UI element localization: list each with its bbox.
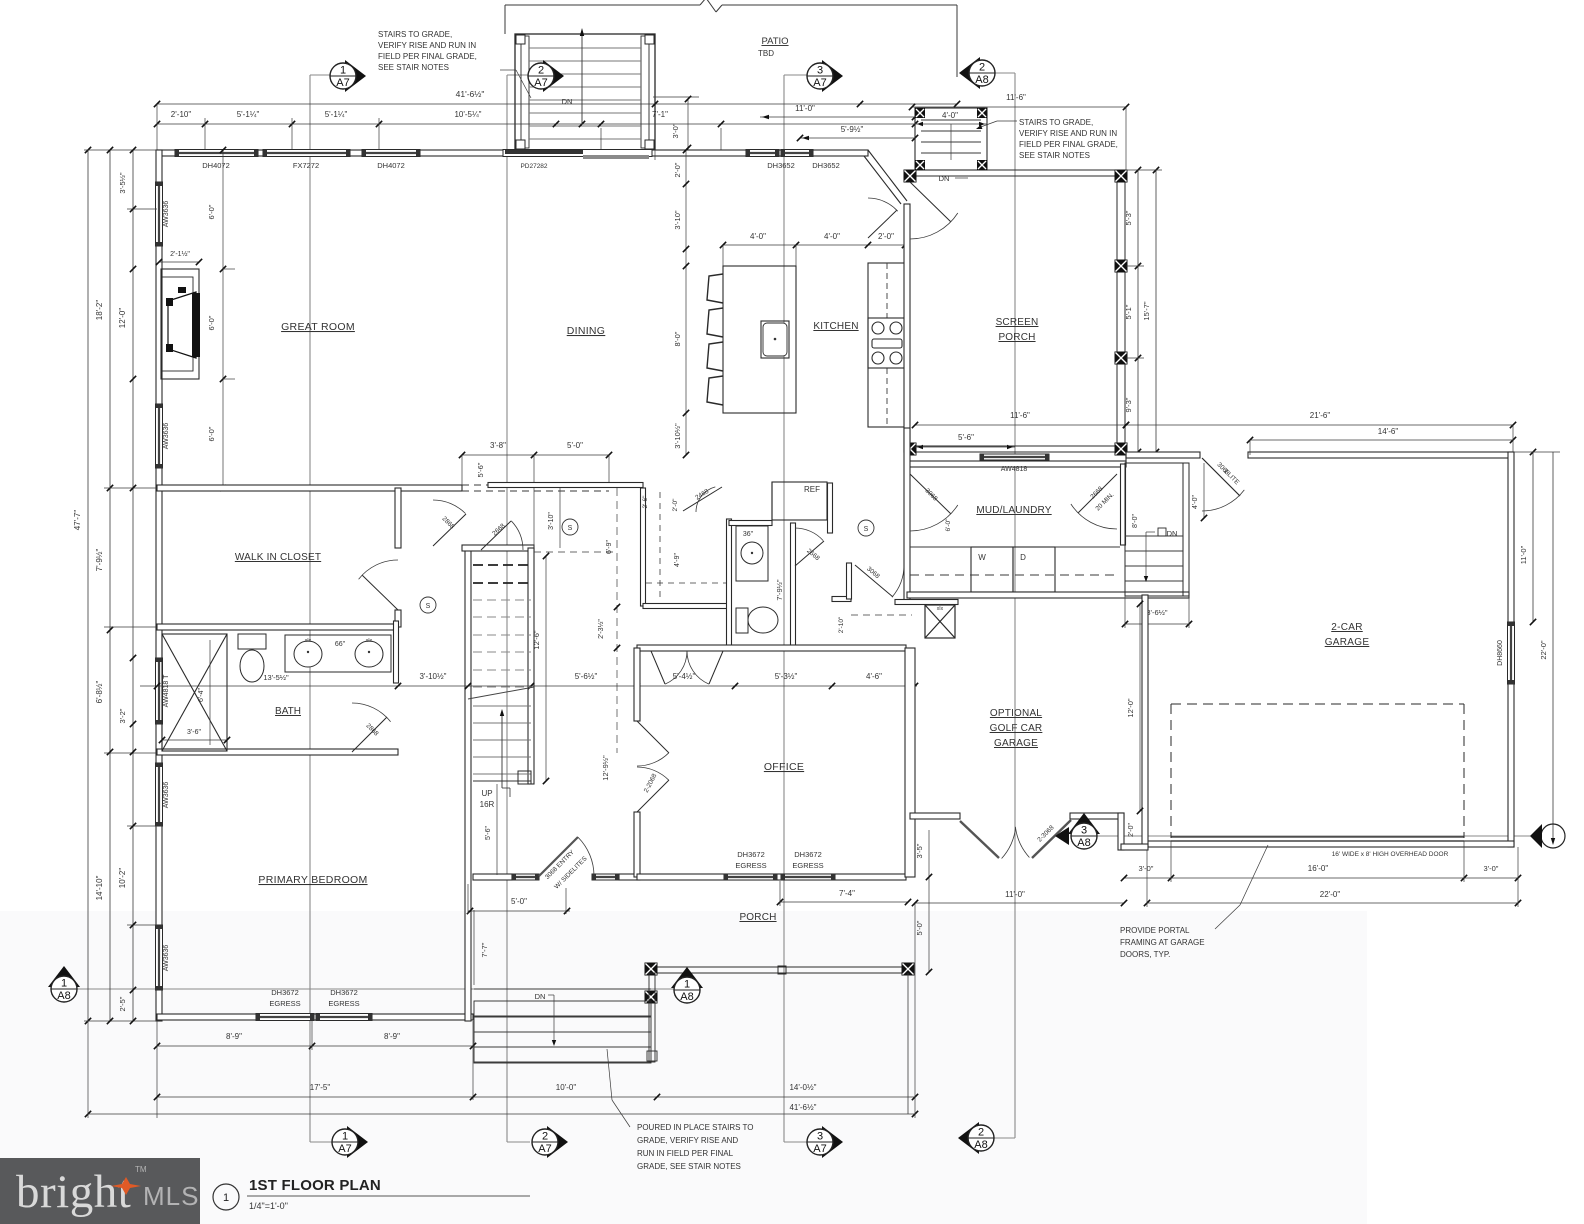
svg-text:DN: DN bbox=[535, 992, 546, 1001]
svg-text:3'-6": 3'-6" bbox=[187, 729, 201, 736]
foyer wall stubs bbox=[832, 597, 851, 602]
svg-text:DN: DN bbox=[939, 174, 950, 183]
svg-text:5'-0": 5'-0" bbox=[567, 441, 583, 450]
svg-text:A7: A7 bbox=[338, 1143, 351, 1155]
svg-text:4'-0": 4'-0" bbox=[824, 232, 840, 241]
svg-text:3'-0": 3'-0" bbox=[671, 123, 680, 138]
garage top wall bbox=[1126, 452, 1200, 458]
pantry dashed shelves bbox=[659, 492, 661, 600]
svg-text:DH3672: DH3672 bbox=[330, 988, 358, 997]
bath door 2868 bbox=[352, 717, 387, 752]
dim 17'-5 / 10'-0 / 14'-0 1/2 bbox=[157, 1096, 915, 1098]
vertical extension lines top left bbox=[156, 104, 158, 150]
svg-text:16'-0": 16'-0" bbox=[1308, 864, 1329, 873]
svg-text:RUN IN FIELD PER FINAL: RUN IN FIELD PER FINAL bbox=[637, 1149, 734, 1158]
dim 11'-0 bottom golf bbox=[915, 902, 1124, 904]
porch right extension bbox=[907, 973, 909, 1114]
left extension lines bbox=[104, 487, 157, 489]
svg-text:1: 1 bbox=[342, 1131, 348, 1143]
office south wall bbox=[637, 874, 906, 880]
great room south wall / closet north bbox=[157, 485, 462, 491]
svg-text:5'-3½": 5'-3½" bbox=[775, 672, 798, 681]
bath shower bbox=[162, 634, 227, 751]
svg-text:6'-0": 6'-0" bbox=[945, 518, 952, 532]
svg-text:10'-2": 10'-2" bbox=[118, 868, 127, 889]
section line 2/A8 vertical bbox=[1014, 73, 1016, 1138]
section line 3/A8 horizontal bbox=[1097, 835, 1540, 837]
garage right dims bbox=[1532, 452, 1534, 622]
mud north wall bbox=[907, 461, 1126, 467]
foyer door 3068 bbox=[855, 565, 893, 597]
office west wall bbox=[634, 648, 640, 721]
svg-text:GRADE, SEE STAIR NOTES: GRADE, SEE STAIR NOTES bbox=[637, 1162, 741, 1171]
svg-text:OPTIONAL: OPTIONAL bbox=[990, 708, 1042, 719]
patio stair direction arrow bbox=[581, 32, 583, 124]
svg-text:GARAGE: GARAGE bbox=[994, 738, 1038, 749]
svg-text:A7: A7 bbox=[813, 1143, 826, 1155]
svg-text:EGRESS: EGRESS bbox=[269, 999, 300, 1008]
golf garage front wall bbox=[910, 813, 960, 819]
stair dim 12'-6 bbox=[545, 556, 547, 781]
dim 8'-9 8'-9 bottom bbox=[157, 1045, 473, 1047]
svg-text:UP: UP bbox=[481, 789, 492, 798]
svg-text:41'-6½": 41'-6½" bbox=[456, 89, 485, 99]
svg-text:GREAT ROOM: GREAT ROOM bbox=[281, 321, 355, 333]
garage left wall bbox=[1142, 595, 1148, 847]
svg-text:5'-6": 5'-6" bbox=[476, 462, 485, 477]
svg-text:GRADE, VERIFY RISE AND: GRADE, VERIFY RISE AND bbox=[637, 1136, 738, 1145]
svg-text:A7: A7 bbox=[538, 1143, 551, 1155]
svg-text:AW3636: AW3636 bbox=[163, 945, 170, 972]
long dim line y686 bbox=[140, 685, 917, 687]
svg-text:A7: A7 bbox=[813, 77, 826, 89]
garage window DH8660 bbox=[1508, 622, 1515, 684]
closet south / bath north wall bbox=[157, 624, 398, 630]
svg-text:GARAGE: GARAGE bbox=[1325, 637, 1370, 648]
svg-text:2: 2 bbox=[542, 1131, 548, 1143]
bedroom south exterior wall bbox=[157, 1014, 473, 1020]
svg-text:11'-6": 11'-6" bbox=[1006, 93, 1026, 102]
svg-text:DH3652: DH3652 bbox=[767, 161, 795, 170]
patio stairs to grade bbox=[515, 34, 655, 150]
closet door arc bbox=[362, 575, 398, 610]
window DH4072 top 2 bbox=[362, 150, 420, 157]
golf garage double doors bbox=[960, 821, 999, 858]
svg-text:2'-3½": 2'-3½" bbox=[597, 619, 605, 639]
svg-text:FIELD PER FINAL GRADE,: FIELD PER FINAL GRADE, bbox=[1019, 140, 1118, 149]
wall right of REF bbox=[828, 483, 833, 533]
section line 1/A7 vertical bbox=[309, 75, 311, 1142]
marker 3/A8 bbox=[1068, 813, 1100, 834]
svg-text:14'-10": 14'-10" bbox=[95, 875, 104, 900]
REF box bbox=[772, 482, 827, 520]
svg-text:8'-9": 8'-9" bbox=[226, 1032, 242, 1041]
marker 1/A7 bottom bbox=[347, 1126, 368, 1158]
garage top dims bbox=[1126, 424, 1513, 426]
svg-text:DN: DN bbox=[562, 97, 573, 106]
rear stair east wall bbox=[1183, 463, 1189, 596]
svg-text:5'-3": 5'-3" bbox=[1124, 210, 1133, 225]
svg-text:S: S bbox=[864, 526, 869, 533]
kitchen island bbox=[723, 266, 796, 413]
svg-text:DH3672: DH3672 bbox=[794, 850, 822, 859]
svg-text:2'-6": 2'-6" bbox=[642, 495, 649, 509]
dim chain top bbox=[157, 123, 915, 125]
svg-text:DH4072: DH4072 bbox=[377, 161, 405, 170]
stair north wall bbox=[462, 545, 534, 551]
svg-text:BATH: BATH bbox=[275, 706, 301, 717]
svg-text:7'-7": 7'-7" bbox=[480, 942, 489, 957]
svg-text:4'-0": 4'-0" bbox=[1192, 495, 1199, 509]
svg-text:7'-9½": 7'-9½" bbox=[775, 579, 784, 601]
svg-text:S: S bbox=[426, 603, 431, 610]
top exterior wall great room-dining-kitchen bbox=[157, 150, 868, 156]
svg-text:12'-0": 12'-0" bbox=[118, 308, 127, 329]
dim 11'-6 screen bottom bbox=[915, 424, 1126, 426]
svg-text:AW3636: AW3636 bbox=[163, 423, 170, 450]
svg-text:11'-0": 11'-0" bbox=[795, 104, 815, 113]
svg-text:S: S bbox=[568, 525, 573, 532]
title circle bbox=[213, 1184, 239, 1210]
svg-text:GOLF CAR: GOLF CAR bbox=[990, 723, 1043, 734]
screen porch posts bbox=[904, 170, 917, 183]
svg-text:PATIO: PATIO bbox=[761, 36, 788, 47]
svg-text:5'-9½": 5'-9½" bbox=[841, 125, 864, 134]
svg-text:4'-0": 4'-0" bbox=[942, 111, 958, 120]
section line 3/A7 vertical bbox=[783, 75, 785, 1142]
svg-text:FX7272: FX7272 bbox=[293, 161, 319, 170]
svg-text:36": 36" bbox=[743, 531, 754, 538]
marker 3/A7 top bbox=[822, 60, 843, 92]
svg-text:WALK IN CLOSET: WALK IN CLOSET bbox=[235, 552, 321, 563]
dim 3'-6 1/2 rear stair bbox=[1125, 623, 1189, 625]
bath south wall bbox=[157, 749, 398, 755]
window AW3636 left 1 bbox=[156, 182, 163, 246]
svg-text:3'-10½": 3'-10½" bbox=[419, 672, 446, 681]
svg-text:REF: REF bbox=[804, 485, 820, 494]
svg-text:2: 2 bbox=[538, 65, 544, 77]
svg-text:21'-6": 21'-6" bbox=[1310, 411, 1331, 420]
hall west wall x398 bbox=[395, 488, 401, 548]
bright MLS logo bbox=[0, 1158, 200, 1224]
svg-text:EGRESS: EGRESS bbox=[328, 999, 359, 1008]
section line 1/A8 horizontal bbox=[77, 988, 674, 990]
svg-text:PORCH: PORCH bbox=[998, 332, 1035, 343]
dim 11'-6 screen top bbox=[912, 106, 1126, 108]
dim 12'-0 golf garage bbox=[1139, 604, 1141, 811]
svg-text:5'-6": 5'-6" bbox=[485, 826, 492, 840]
svg-text:12'-0": 12'-0" bbox=[1126, 698, 1135, 717]
powder top wall bbox=[729, 521, 772, 526]
svg-text:5'-1¼": 5'-1¼" bbox=[237, 110, 260, 119]
window DH4072 top 1 bbox=[175, 150, 258, 157]
svg-text:15'-7": 15'-7" bbox=[1142, 301, 1151, 320]
svg-text:47'-7": 47'-7" bbox=[73, 510, 82, 531]
window AW3636 left 4 bbox=[156, 925, 163, 990]
svg-text:18'-2": 18'-2" bbox=[95, 300, 104, 321]
marker 2/A7 top bbox=[543, 60, 564, 92]
svg-text:3'-5": 3'-5" bbox=[915, 843, 924, 858]
screen porch right wall bbox=[1117, 170, 1125, 452]
marker 1/A8 left bbox=[48, 966, 80, 987]
svg-text:xIx: xIx bbox=[305, 638, 312, 644]
svg-text:xIx: xIx bbox=[937, 606, 944, 612]
svg-text:1: 1 bbox=[684, 979, 690, 991]
svg-text:14'-0½": 14'-0½" bbox=[789, 1083, 816, 1092]
svg-text:A8: A8 bbox=[975, 74, 988, 86]
svg-text:3'-0": 3'-0" bbox=[1139, 864, 1154, 873]
svg-text:5'-0": 5'-0" bbox=[915, 920, 924, 935]
svg-text:10'-5¼": 10'-5¼" bbox=[454, 110, 481, 119]
mud west wall bbox=[904, 428, 910, 600]
svg-text:2'-1½": 2'-1½" bbox=[170, 250, 190, 258]
svg-text:2'-10": 2'-10" bbox=[171, 110, 192, 119]
svg-text:DH3672: DH3672 bbox=[271, 988, 299, 997]
svg-text:6'-0": 6'-0" bbox=[207, 315, 216, 330]
garage right wall bbox=[1508, 452, 1514, 847]
dim 5'-0 entry bbox=[468, 910, 570, 912]
svg-text:5'-0": 5'-0" bbox=[511, 897, 527, 906]
svg-text:4'-9": 4'-9" bbox=[674, 553, 681, 567]
stair lower treads bbox=[473, 705, 531, 707]
washer dryer bbox=[971, 547, 1013, 592]
kitchen right counter bbox=[868, 263, 905, 427]
svg-text:6'-0": 6'-0" bbox=[207, 204, 216, 219]
svg-text:A7: A7 bbox=[336, 77, 349, 89]
rear stair DN bbox=[1158, 528, 1166, 536]
svg-text:PRIMARY BEDROOM: PRIMARY BEDROOM bbox=[258, 874, 367, 886]
dim 7'-4 porch bbox=[780, 901, 908, 903]
porch stairs bbox=[474, 988, 651, 990]
kitchen dims 4-0 4-0 2-0 bbox=[723, 244, 905, 246]
svg-text:DH3672: DH3672 bbox=[737, 850, 765, 859]
svg-text:3: 3 bbox=[1081, 825, 1087, 837]
entry sidelites bbox=[512, 874, 539, 880]
svg-text:KITCHEN: KITCHEN bbox=[813, 321, 858, 332]
svg-text:PD27282: PD27282 bbox=[520, 163, 547, 170]
powder toilet bbox=[736, 608, 748, 633]
garage dashed parking rect bbox=[1171, 703, 1464, 705]
svg-text:SEE STAIR NOTES: SEE STAIR NOTES bbox=[378, 63, 449, 72]
bath toilet bbox=[238, 634, 266, 649]
svg-text:12'-6": 12'-6" bbox=[532, 630, 541, 649]
svg-text:FRAMING AT GARAGE: FRAMING AT GARAGE bbox=[1120, 938, 1205, 947]
svg-text:41'-6½": 41'-6½" bbox=[789, 1103, 816, 1112]
svg-text:8'-0": 8'-0" bbox=[1132, 514, 1139, 528]
screen porch stairs top bbox=[915, 108, 987, 170]
svg-text:3'-10½": 3'-10½" bbox=[673, 423, 682, 449]
office windows DH3672 bbox=[724, 874, 777, 880]
svg-text:1ST FLOOR PLAN: 1ST FLOOR PLAN bbox=[249, 1177, 381, 1194]
svg-text:2: 2 bbox=[978, 1127, 984, 1139]
marker 2/A7 bottom bbox=[547, 1126, 568, 1158]
svg-text:POURED IN PLACE STAIRS TO: POURED IN PLACE STAIRS TO bbox=[637, 1123, 753, 1132]
dim chain left outer bbox=[109, 150, 111, 1021]
left exterior wall bbox=[156, 150, 162, 1021]
hall doors at stair top bbox=[433, 514, 466, 546]
svg-text:TBD: TBD bbox=[758, 49, 774, 58]
svg-text:22'-0": 22'-0" bbox=[1320, 890, 1341, 899]
svg-text:2-CAR: 2-CAR bbox=[1331, 622, 1363, 633]
svg-text:OFFICE: OFFICE bbox=[764, 761, 804, 773]
svg-text:STAIRS TO GRADE,: STAIRS TO GRADE, bbox=[378, 30, 452, 39]
svg-text:A8: A8 bbox=[57, 990, 70, 1002]
stair treads upper dashed bbox=[473, 564, 531, 566]
svg-text:8'-0": 8'-0" bbox=[673, 331, 682, 346]
svg-text:7'-1": 7'-1" bbox=[652, 110, 668, 119]
svg-text:5'-6½": 5'-6½" bbox=[575, 672, 598, 681]
svg-text:6'-0": 6'-0" bbox=[207, 426, 216, 441]
svg-text:AW4818 T: AW4818 T bbox=[163, 674, 170, 707]
mud left door 3068 bbox=[910, 474, 951, 514]
office double door top bbox=[651, 651, 665, 684]
svg-text:MLS: MLS bbox=[143, 1181, 199, 1211]
svg-text:3'-5½": 3'-5½" bbox=[118, 172, 127, 194]
svg-text:66": 66" bbox=[335, 641, 346, 648]
svg-text:2: 2 bbox=[979, 62, 985, 74]
entry door leaf bbox=[539, 837, 578, 876]
pantry door 2468 bbox=[683, 487, 722, 511]
dim 4'-0 stair bbox=[1203, 463, 1205, 518]
marker 1/A8 right bbox=[671, 967, 703, 988]
dim 2'-0 3'-10 8'-0 right of dining bbox=[654, 150, 656, 160]
mud counter lines bbox=[910, 546, 971, 548]
svg-text:AW4818: AW4818 bbox=[1001, 466, 1028, 473]
svg-text:17'-5": 17'-5" bbox=[310, 1083, 331, 1092]
svg-text:DINING: DINING bbox=[567, 325, 606, 337]
window AW4818 mud bbox=[980, 454, 1049, 460]
screen porch left wall bbox=[904, 204, 910, 452]
svg-text:A7: A7 bbox=[534, 77, 547, 89]
svg-text:7'-4": 7'-4" bbox=[839, 889, 855, 898]
powder sink bbox=[736, 526, 768, 581]
fireplace bbox=[161, 269, 199, 379]
svg-text:3'-10": 3'-10" bbox=[548, 512, 555, 530]
marker 1/A7 top bbox=[345, 60, 366, 92]
svg-text:D: D bbox=[1020, 553, 1026, 562]
office west double door bbox=[637, 721, 669, 753]
svg-text:FIELD PER FINAL GRADE,: FIELD PER FINAL GRADE, bbox=[378, 52, 477, 61]
svg-text:DN: DN bbox=[1167, 529, 1178, 538]
rear stair to basement bbox=[1125, 463, 1189, 596]
svg-text:11'-0": 11'-0" bbox=[1005, 890, 1025, 899]
dim 47'-7 overall left bbox=[87, 150, 89, 1021]
stair west wall bbox=[465, 548, 471, 1021]
svg-text:3'-2": 3'-2" bbox=[118, 708, 127, 723]
svg-text:1: 1 bbox=[340, 65, 346, 77]
fireplace dim 2'-1 1/2 bbox=[159, 261, 199, 263]
screen porch top rail bbox=[904, 170, 1126, 176]
dim 3'-5 5'-0 vertical right of office bbox=[928, 830, 930, 972]
dim 6'-0 chain inside great room bbox=[222, 150, 224, 488]
patio break line top bbox=[505, 4, 700, 6]
dim 11'-0 / 5'-9 1/2 kitchen top bbox=[760, 116, 915, 118]
patio 3'-0 dim right bbox=[653, 96, 699, 98]
svg-text:6'-9": 6'-9" bbox=[606, 540, 613, 554]
window DH3672 egress 1 bbox=[256, 1014, 314, 1021]
marker 2/A8 bottom bbox=[958, 1122, 979, 1154]
svg-text:3'-10": 3'-10" bbox=[673, 210, 682, 229]
svg-text:3: 3 bbox=[817, 1131, 823, 1143]
stair break line bbox=[468, 687, 534, 699]
hall walls below powder bbox=[643, 646, 793, 651]
bath vanity bbox=[285, 635, 391, 672]
island chairs bbox=[707, 274, 723, 303]
dim 7'-7 vertical entry bbox=[473, 910, 475, 985]
marker 2/A8 top bbox=[959, 57, 980, 89]
svg-text:4'-0": 4'-0" bbox=[750, 232, 766, 241]
svg-text:DH8660: DH8660 bbox=[1497, 640, 1504, 666]
svg-text:5'-6": 5'-6" bbox=[958, 433, 974, 442]
porch posts bbox=[645, 963, 658, 976]
svg-text:AW3636: AW3636 bbox=[163, 201, 170, 228]
svg-text:VERIFY RISE AND RUN IN: VERIFY RISE AND RUN IN bbox=[378, 41, 476, 50]
stair direction line bbox=[501, 712, 503, 788]
svg-text:SEE STAIR NOTES: SEE STAIR NOTES bbox=[1019, 151, 1090, 160]
svg-text:VERIFY RISE AND RUN IN: VERIFY RISE AND RUN IN bbox=[1019, 129, 1117, 138]
dim chain left inner bbox=[132, 150, 134, 1021]
screen porch right dims bbox=[1137, 170, 1139, 452]
powder east wall bbox=[791, 523, 796, 648]
svg-text:5'-1¼": 5'-1¼" bbox=[325, 110, 348, 119]
dim 41'-6 1/2 top bbox=[157, 103, 957, 105]
garage bottom wall bbox=[1147, 841, 1514, 847]
entry south wall bbox=[473, 874, 512, 880]
pantry walls bbox=[641, 488, 646, 606]
dim 5'-6 bottom bbox=[915, 446, 1015, 448]
svg-text:2'-0": 2'-0" bbox=[1128, 823, 1135, 837]
dim 41'-6 1/2 bottom bbox=[88, 1113, 915, 1115]
patio door PD27282 bbox=[503, 150, 652, 157]
golf garage jog bbox=[1118, 813, 1124, 850]
svg-text:11'-0": 11'-0" bbox=[1519, 545, 1528, 564]
screen porch door bbox=[910, 182, 951, 222]
svg-text:2'-0": 2'-0" bbox=[673, 162, 682, 177]
dim 3'-10 vertical near stairs bbox=[559, 488, 561, 548]
svg-text:DH4072: DH4072 bbox=[202, 161, 230, 170]
garage overhead door bbox=[1171, 836, 1464, 838]
svg-text:9'-3": 9'-3" bbox=[1124, 397, 1133, 412]
marker 3/A7 bottom bbox=[822, 1126, 843, 1158]
svg-text:xIx: xIx bbox=[366, 638, 373, 644]
svg-text:AW3636: AW3636 bbox=[163, 782, 170, 809]
svg-text:8'-9": 8'-9" bbox=[384, 1032, 400, 1041]
svg-text:2'-10": 2'-10" bbox=[838, 616, 845, 633]
svg-text:A8: A8 bbox=[1077, 837, 1090, 849]
garage bottom dims bbox=[1124, 877, 1518, 879]
dims above stairs 3'-8 5'-0 bbox=[462, 454, 609, 456]
svg-text:16R: 16R bbox=[480, 800, 495, 809]
stair landing box bbox=[518, 771, 531, 784]
window AW4818 left bath bbox=[156, 658, 163, 724]
svg-text:STAIRS TO GRADE,: STAIRS TO GRADE, bbox=[1019, 118, 1093, 127]
dashed header right of stairs bbox=[534, 551, 614, 553]
svg-text:14'-6": 14'-6" bbox=[1378, 427, 1399, 436]
cooktop bbox=[868, 318, 905, 368]
svg-text:DOORS, TYP.: DOORS, TYP. bbox=[1120, 950, 1170, 959]
svg-text:2'-0": 2'-0" bbox=[878, 232, 894, 241]
window DH3652 top 1 bbox=[746, 150, 779, 157]
svg-text:PORCH: PORCH bbox=[739, 912, 776, 923]
mud east wall bbox=[1121, 464, 1126, 545]
svg-text:3'-6½": 3'-6½" bbox=[1146, 608, 1168, 617]
office east wall bbox=[905, 648, 915, 877]
porch deck edge bbox=[646, 967, 913, 973]
kitchen corner door arc bbox=[868, 210, 897, 238]
svg-text:11'-6": 11'-6" bbox=[1010, 411, 1030, 420]
dashed opening above stairs bbox=[462, 484, 609, 486]
section line 2/A7 vertical bbox=[506, 75, 508, 1142]
